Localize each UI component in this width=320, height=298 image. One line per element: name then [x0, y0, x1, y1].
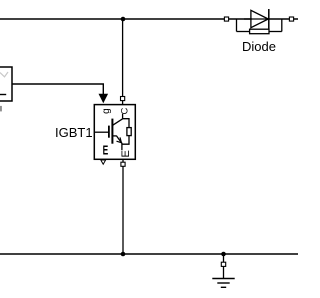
svg-text:E: E [120, 150, 132, 157]
svg-text:g: g [101, 108, 112, 114]
svg-text:IGBT1: IGBT1 [55, 125, 93, 140]
svg-text:C: C [119, 107, 130, 114]
svg-text:Diode: Diode [242, 39, 276, 54]
svg-text:E: E [103, 143, 109, 158]
